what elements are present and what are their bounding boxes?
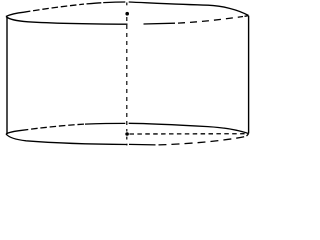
right side line xyxy=(248,16,250,134)
axis dashes below bottom dot xyxy=(126,137,128,146)
top ellipse lower arc dashed right part xyxy=(178,17,243,24)
top ellipse upper arc dashed middle xyxy=(24,4,84,12)
top ellipse lower arc long dash xyxy=(144,22,176,25)
top ellipse upper arc solid left part xyxy=(6,12,24,16)
bottom ellipse upper arc solid left part xyxy=(6,130,22,134)
bottom center dot xyxy=(125,132,129,136)
top center dot xyxy=(125,12,129,16)
bottom ellipse lower arc end hook xyxy=(247,134,249,137)
top ellipse upper arc long dash a xyxy=(87,3,102,4)
vertical dashed axis xyxy=(126,17,128,132)
horizontal dashed radius xyxy=(130,133,248,135)
bottom ellipse lower arc dashed right part xyxy=(159,136,247,145)
bottom ellipse upper arc solid mid xyxy=(85,122,125,125)
left side line xyxy=(6,17,8,134)
bottom ellipse upper arc dashed middle xyxy=(22,124,85,130)
cylinder figure xyxy=(0,0,254,150)
bottom ellipse lower arc solid left part xyxy=(6,134,128,145)
bottom ellipse upper arc solid right part xyxy=(129,123,249,133)
top ellipse upper arc solid right part xyxy=(129,2,249,16)
top ellipse upper arc long dash b xyxy=(103,1,125,4)
bottom ellipse lower arc solid mid xyxy=(129,143,156,146)
top ellipse lower arc end hook xyxy=(245,15,249,18)
axis dash above top dot xyxy=(126,3,128,6)
top ellipse lower arc solid left part xyxy=(6,17,128,25)
